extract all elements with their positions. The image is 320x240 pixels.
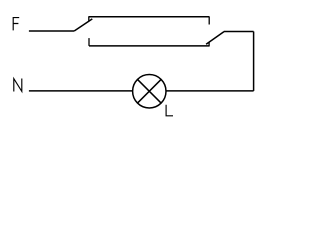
lamp L1 circle bbox=[133, 75, 166, 108]
wire lamp to right rail bbox=[166, 90, 253, 92]
wire lower traveler bbox=[89, 45, 210, 47]
wire N to lamp bbox=[29, 90, 132, 92]
wire F to switch S1 common bbox=[29, 30, 74, 32]
wire right rail vertical bbox=[253, 32, 255, 91]
switch S1 blade (thrown to upper traveler) bbox=[74, 19, 92, 31]
switch S1 upper contact tick bbox=[88, 17, 90, 21]
switch S2 upper contact tick bbox=[208, 17, 210, 25]
lamp L1 cross bbox=[138, 79, 162, 103]
wire upper traveler bbox=[88, 16, 209, 18]
node F label bbox=[13, 17, 19, 30]
switch S2 lower contact tick bbox=[208, 42, 210, 46]
node N label bbox=[14, 79, 22, 92]
lamp label L bbox=[166, 105, 173, 116]
wire S2 common to right rail bbox=[224, 31, 254, 33]
switch S1 lower contact tick bbox=[88, 38, 90, 46]
switch S2 blade (thrown to lower traveler) bbox=[206, 32, 224, 45]
